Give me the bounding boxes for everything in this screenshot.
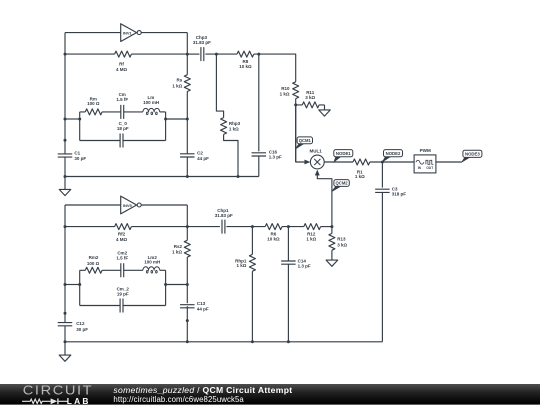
wire Chp3 to R8 — [205, 53, 237, 55]
svg-text:1 kΩ: 1 kΩ — [229, 126, 239, 131]
svg-text:C16: C16 — [269, 149, 278, 154]
ground top circuit — [59, 177, 71, 196]
resistor Rm 100 Ω — [80, 96, 102, 115]
svg-text:Rhp3: Rhp3 — [229, 121, 241, 126]
wire top row to inverter input (lower circuit) — [65, 204, 121, 206]
node: Rhp1 tap — [251, 225, 254, 228]
svg-text:C12: C12 — [76, 321, 85, 326]
node: NODE2 / C3 tap — [381, 161, 384, 164]
svg-text:R10: R10 — [281, 86, 290, 91]
svg-text:1.3 pF: 1.3 pF — [269, 155, 282, 160]
wire right rail upper (lower circuit) — [186, 205, 188, 240]
node: Rhp1 / bottom wire — [251, 340, 254, 343]
capacitor C16 1.3 pF (vertical) — [252, 54, 283, 176]
svg-text:C13: C13 — [197, 301, 206, 306]
capacitor C_0 18 pF (bottom branch) — [80, 121, 166, 147]
net tag QCM1 — [296, 137, 313, 149]
net tag QCM2 — [332, 180, 349, 192]
node: left rail / RLC tap — [64, 118, 67, 121]
wire INV1 output — [141, 32, 187, 34]
svg-text:1.5 fF: 1.5 fF — [116, 97, 128, 102]
wire Chp1 to R6 — [226, 226, 265, 228]
wire RLC right vertical — [165, 112, 167, 141]
wire PWM output to NODE3 — [436, 161, 462, 163]
resistor R10 1 kΩ (vertical) — [280, 82, 299, 99]
svg-text:1.5 fF: 1.5 fF — [116, 256, 128, 261]
svg-text:Rf2: Rf2 — [118, 232, 126, 237]
svg-text:C2: C2 — [197, 150, 203, 155]
node: RLC2 left split — [78, 283, 81, 286]
svg-text:10 kΩ: 10 kΩ — [239, 64, 252, 69]
node: RLC left split — [78, 118, 81, 121]
node: left rail / RLC2 tap — [64, 283, 67, 286]
svg-text:INV5: INV5 — [123, 203, 133, 208]
wire RLC2 merge to right rail — [166, 284, 188, 286]
node: Rhp3 / bottom wire — [237, 175, 240, 178]
capacitor C2 44 pF (on right rail) — [180, 150, 209, 161]
wire top row to inverter input — [65, 32, 121, 34]
resistor Rs2 1 kΩ (on right rail) — [172, 240, 190, 257]
node: right rail / bottom wire (lower) — [186, 340, 189, 343]
resistor R13 3 kΩ (vertical) — [329, 227, 348, 261]
resistor Rf2 4 MΩ — [65, 224, 187, 242]
svg-text:C1: C1 — [74, 151, 80, 156]
capacitor C13 44 pF (on right rail) — [180, 301, 209, 312]
wire RLC left vertical — [79, 112, 81, 141]
svg-text:18 pF: 18 pF — [117, 126, 129, 131]
svg-text:3 kΩ: 3 kΩ — [337, 243, 347, 248]
svg-text:10 kΩ: 10 kΩ — [267, 237, 280, 242]
wire right rail lower (lower circuit) — [186, 306, 188, 342]
wire QCM2 net: MUL1 bottom to lower circuit — [317, 174, 332, 226]
svg-text:44 pF: 44 pF — [197, 156, 209, 161]
resistor Rf 4 MΩ — [65, 51, 187, 72]
svg-text:100 Ω: 100 Ω — [87, 101, 100, 106]
node: QCM2 / R13 junction — [330, 225, 333, 228]
wire R8 to corner, down to R10 — [254, 54, 296, 82]
wire right rail lower — [186, 157, 188, 177]
node: RLC right merge — [164, 118, 167, 121]
svg-text:31.83 pF: 31.83 pF — [193, 40, 211, 45]
svg-text:1 kΩ: 1 kΩ — [280, 91, 290, 96]
svg-text:1 kΩ: 1 kΩ — [355, 174, 365, 179]
node on left rail — [64, 139, 67, 142]
node: C14 tap — [287, 225, 290, 228]
resistor Rhp3 1 kΩ (vertical with jogs) — [216, 54, 240, 176]
wire left rail upper — [64, 33, 66, 154]
node: right rail / RLC tap — [186, 118, 189, 121]
svg-text:4 MΩ: 4 MΩ — [116, 237, 128, 242]
resistor R11 3 kΩ — [296, 90, 325, 108]
wire R6 to R12 — [282, 226, 304, 228]
node on right rail (lower) — [186, 319, 189, 322]
wire R1 to PWM — [370, 161, 414, 163]
PWM block U1 — [414, 148, 436, 173]
inductor Lm2 100 mH — [143, 255, 166, 273]
svg-text:NODE3: NODE3 — [465, 152, 480, 157]
resistor Rhp1 1 kΩ (vertical) — [235, 227, 255, 342]
node: right rail / bottom wire — [186, 175, 189, 178]
net tag NODE3 — [462, 150, 482, 162]
wire left rail lower — [64, 157, 66, 176]
wire right rail below Rs — [186, 92, 188, 154]
node: Rhp3 tap — [215, 53, 218, 56]
svg-text:100 Ω: 100 Ω — [87, 261, 100, 266]
resistor R1 1 kΩ — [353, 159, 370, 179]
svg-text:1 kΩ: 1 kΩ — [172, 84, 182, 89]
wire bottom row (lower circuit ground net) — [65, 341, 382, 343]
node: C16 tap — [257, 53, 260, 56]
svg-text:PWM: PWM — [420, 148, 431, 153]
svg-text:31.83 pF: 31.83 pF — [215, 213, 233, 218]
svg-text:30 pF: 30 pF — [76, 327, 88, 332]
svg-text:OUT: OUT — [426, 166, 433, 170]
svg-text:R13: R13 — [337, 237, 346, 242]
wire right rail upper — [186, 33, 188, 75]
svg-text:Rs: Rs — [177, 78, 183, 83]
wire left rail lower (lower circuit) — [64, 326, 66, 342]
wire R10 down to MUL row — [295, 99, 297, 162]
wire rail to RLC2 split — [65, 284, 80, 286]
capacitor Chp1 31.83 pF — [215, 208, 233, 234]
capacitor C3 318 pF (vertical) — [375, 162, 406, 342]
resistor R6 10 kΩ — [265, 224, 282, 242]
svg-text:100 mH: 100 mH — [144, 260, 160, 265]
node: right rail / Rf row — [186, 53, 189, 56]
svg-text:19 pF: 19 pF — [117, 292, 129, 297]
net tag NODE1 — [334, 150, 353, 162]
wire left rail upper (lower circuit) — [64, 205, 66, 323]
wire RLC merge to right rail — [166, 118, 188, 120]
svg-text:1.3 pF: 1.3 pF — [298, 264, 311, 269]
resistor R12 1 kΩ — [304, 224, 321, 242]
capacitor Cm 1.5 fF — [102, 92, 143, 119]
svg-text:1 kΩ: 1 kΩ — [172, 249, 182, 254]
node: left rail / bottom wire (lower) — [64, 340, 67, 343]
svg-text:MUL1: MUL1 — [309, 149, 322, 154]
wire rail to RLC split — [65, 118, 80, 120]
svg-text:3 kΩ: 3 kΩ — [305, 95, 315, 100]
svg-text:1 kΩ: 1 kΩ — [306, 237, 316, 242]
inductor Lm 100 mH — [143, 95, 166, 115]
svg-text:QCM1: QCM1 — [299, 138, 312, 143]
resistor Rm2 100 Ω — [80, 255, 102, 273]
node: left rail / bottom wire — [64, 175, 67, 178]
svg-text:Rs2: Rs2 — [174, 244, 183, 249]
node: left rail / Rf2 row — [64, 225, 67, 228]
node: right rail / RLC2 tap — [186, 283, 189, 286]
wire R12 to QCM2 junction — [321, 226, 332, 228]
wire INV5 output — [141, 204, 187, 206]
resistor R8 10 kΩ — [237, 51, 254, 69]
wire bottom row (top circuit ground net) — [65, 176, 259, 178]
capacitor Chp3 31.83 pF — [193, 35, 211, 61]
svg-text:NODE1: NODE1 — [336, 151, 351, 156]
capacitor Cm_2 19 pF (bottom branch) — [80, 287, 166, 313]
node: right rail / Rf2 row — [186, 225, 189, 228]
wire MUL1 output to R1 — [324, 161, 353, 163]
ground at R11 — [319, 105, 331, 116]
svg-text:100 mH: 100 mH — [143, 100, 159, 105]
wire QCM1 net: R10 junction down to multiplier — [296, 105, 305, 162]
op-amp INV5 (inverter, lower) — [121, 196, 142, 214]
multiplier MUL1 — [309, 149, 324, 169]
capacitor Cm2 1.5 fF — [102, 250, 143, 277]
wire RLC2 right vertical — [165, 270, 167, 305]
net tag NODE2 — [383, 150, 403, 162]
svg-text:30 pF: 30 pF — [74, 156, 86, 161]
node: RLC2 right merge — [164, 283, 167, 286]
capacitor C14 1.3 pF (vertical) — [281, 227, 311, 342]
node: R10/R11 junction QCM1 — [294, 103, 297, 106]
capacitor C12 30 pF (on left rail) — [58, 321, 88, 332]
wire Rf2 row to Chp1 — [187, 226, 220, 228]
svg-text:Rm2: Rm2 — [89, 255, 99, 260]
node on left rail (lower) — [64, 312, 67, 315]
svg-text:INV1: INV1 — [123, 30, 133, 35]
svg-text:4 MΩ: 4 MΩ — [116, 67, 128, 72]
svg-text:44 pF: 44 pF — [197, 307, 209, 312]
svg-text:318 pF: 318 pF — [392, 192, 407, 197]
node: left rail / Rf row — [64, 53, 67, 56]
wire RLC2 left vertical — [79, 270, 81, 305]
arrowhead into MUL1 X input — [305, 160, 310, 164]
op-amp INV1 (inverter) — [121, 24, 142, 42]
ground at R13 — [326, 260, 338, 266]
ground lower circuit — [59, 342, 71, 362]
wire Rf row to Chp3 — [187, 53, 199, 55]
capacitor C1 30 pF (on left rail) — [58, 151, 87, 162]
wire right rail below Rs2 — [186, 257, 188, 303]
svg-text:QCM2: QCM2 — [336, 181, 349, 186]
svg-text:NODE2: NODE2 — [386, 151, 401, 156]
svg-text:1 kΩ: 1 kΩ — [237, 263, 247, 268]
arrowhead into MUL1 Y input (bottom) — [315, 170, 319, 175]
node: C14 / bottom wire — [287, 340, 290, 343]
resistor Rs 1 kΩ (on right rail) — [172, 75, 190, 92]
